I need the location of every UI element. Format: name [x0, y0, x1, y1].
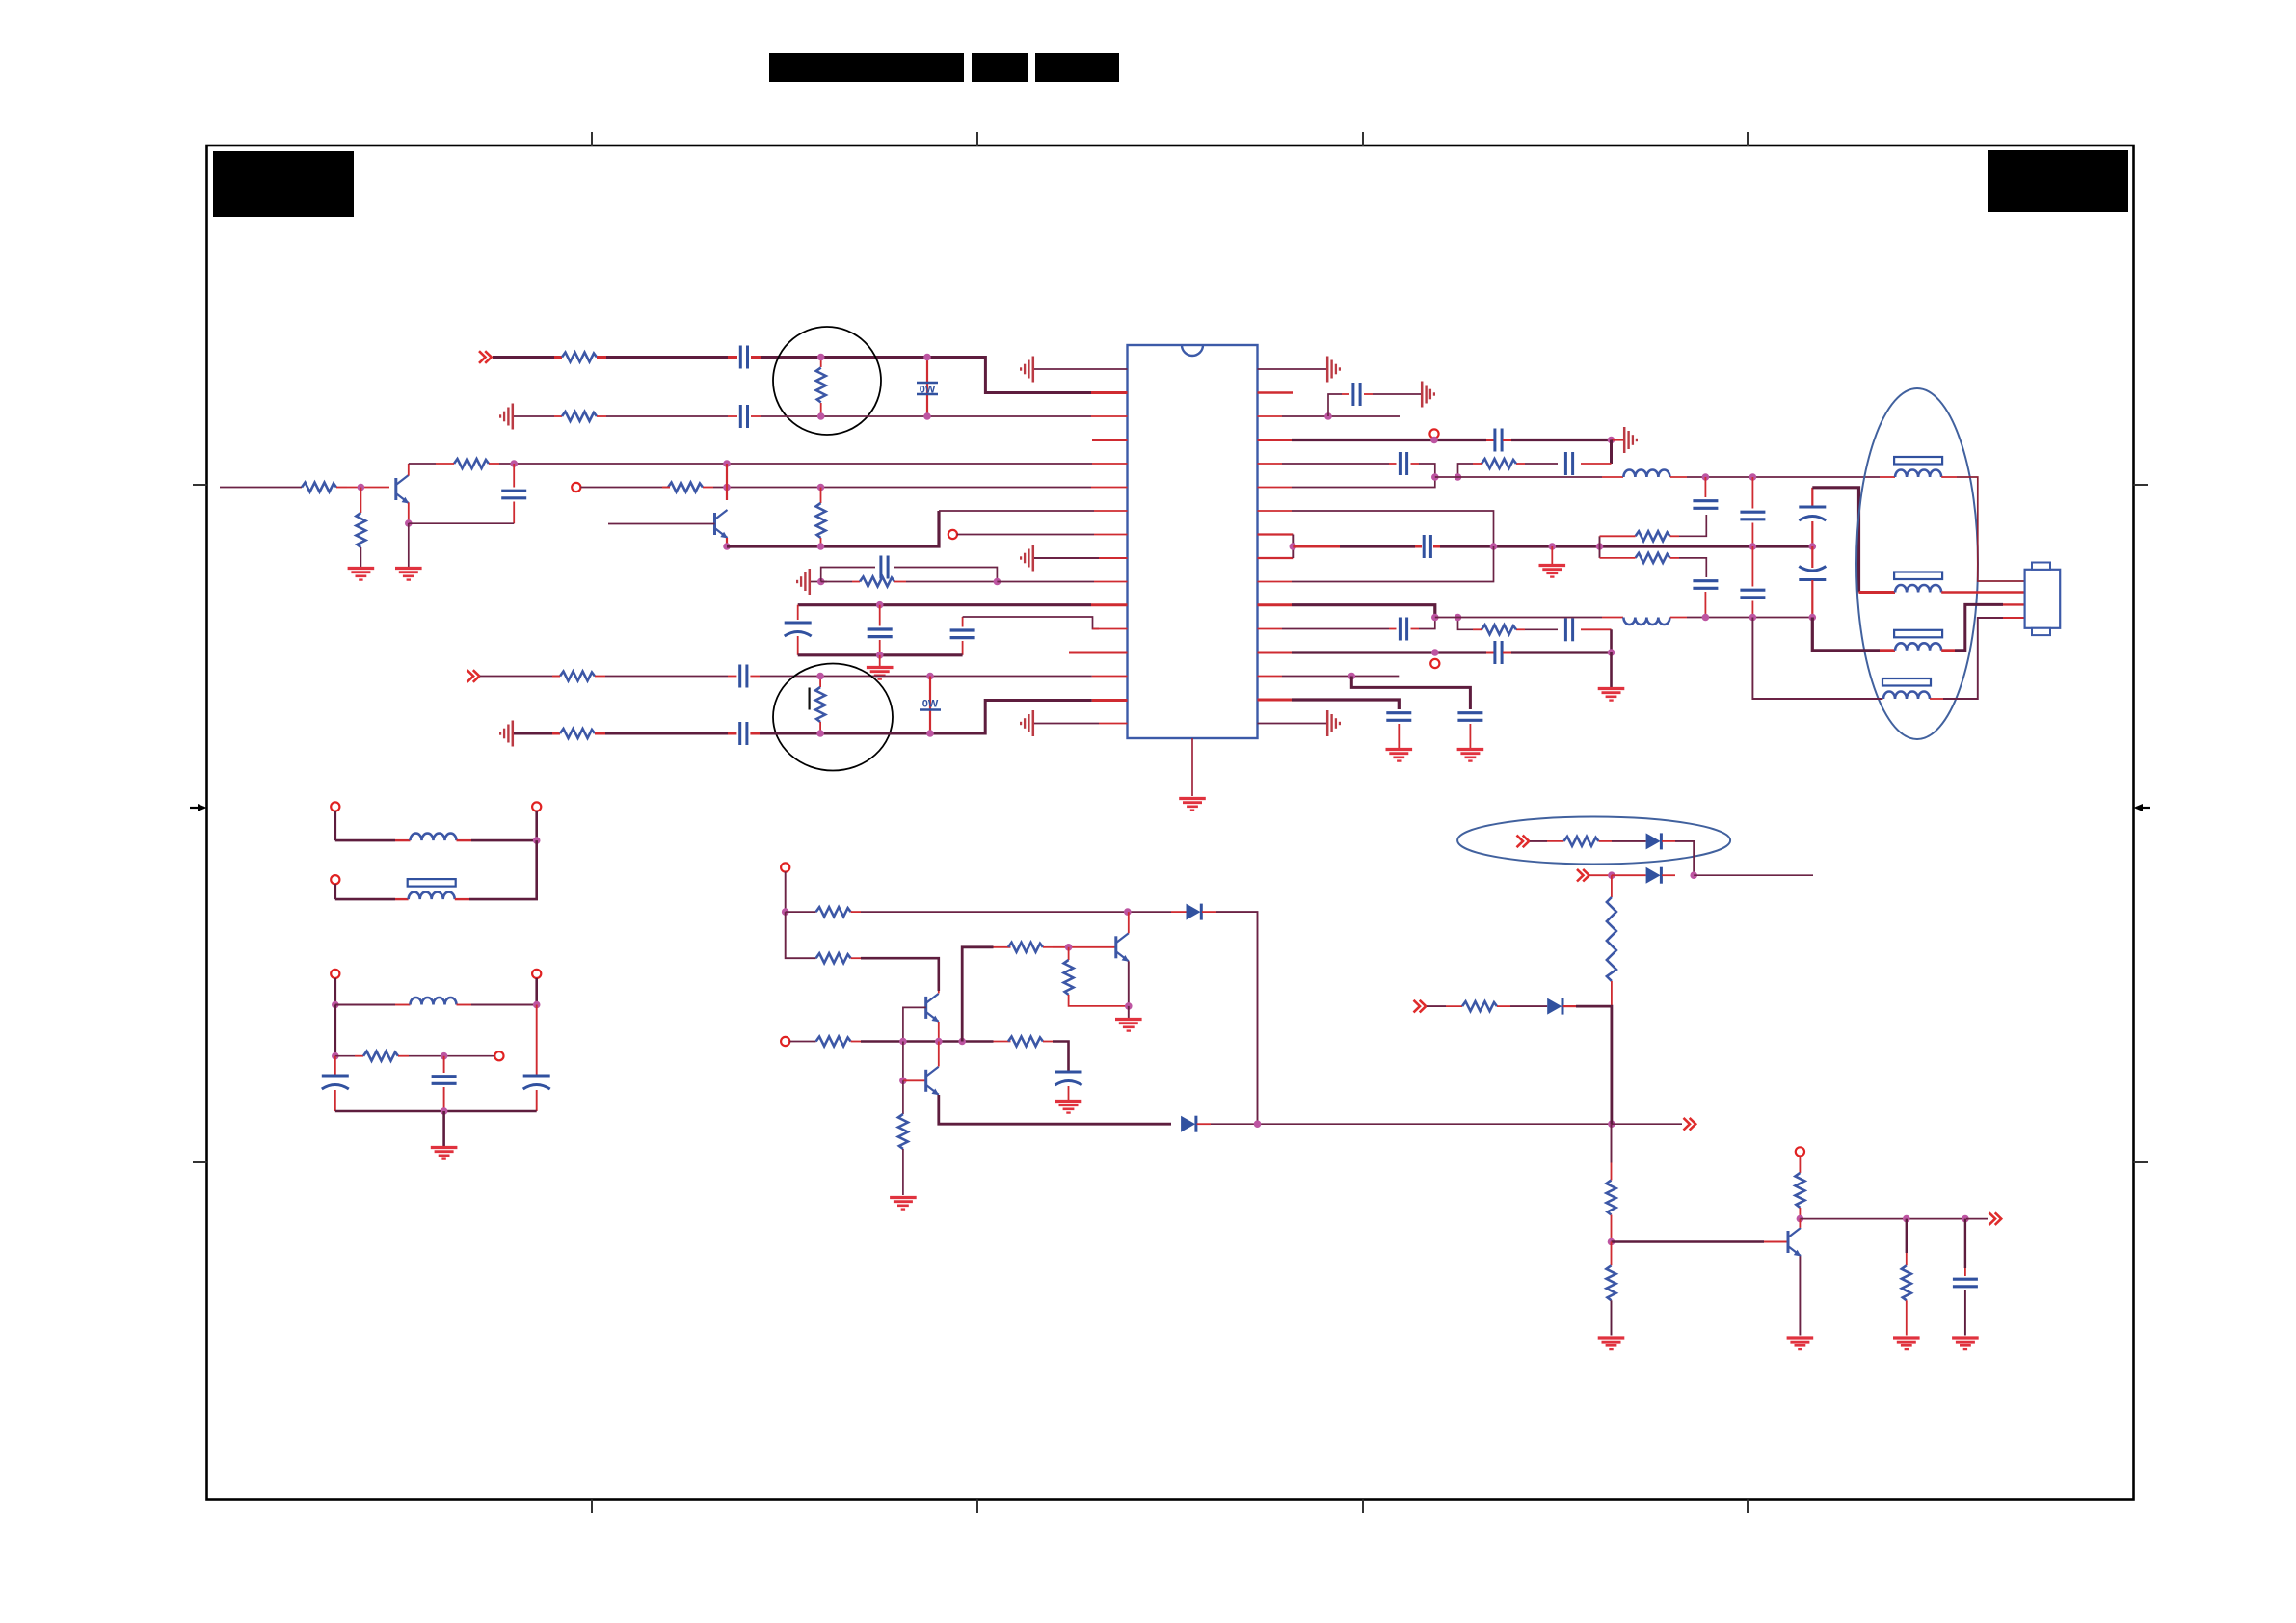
terminal N2 TL: [331, 970, 339, 978]
wire Q5 emitter gnd: [1128, 1006, 1130, 1018]
resistor R19 (row3): [816, 1037, 861, 1047]
wire rail left: [1293, 545, 1415, 548]
wire row F left: [1590, 874, 1612, 876]
border tick bottom 1: [591, 1500, 593, 1514]
node collector row x2038: [1962, 1215, 1969, 1223]
resistor R27 (divider top): [1607, 1124, 1616, 1241]
wire row G left: [1427, 1005, 1446, 1007]
svg-text:0W: 0W: [922, 699, 939, 710]
chassis ground row603: [797, 569, 810, 595]
wire IC pinR4 (thick row 456.5): [1258, 439, 1487, 441]
wire row1 long: [861, 911, 1171, 913]
resistor R22 (Q5 base row): [994, 943, 1054, 952]
pin stub IC pin13 (red): [1069, 652, 1128, 654]
ground rail: [1539, 566, 1566, 577]
ground col1671: [1598, 689, 1625, 701]
diode D1: [1171, 904, 1216, 920]
node rail x1341: [1290, 543, 1297, 550]
node row B / R2: [817, 412, 825, 420]
title redaction bar 3: [1035, 53, 1119, 82]
node rail x1610: [1549, 543, 1557, 550]
wire W1 to connector pin1: [1957, 477, 2025, 581]
pin stub IC pin4 (red): [1092, 439, 1128, 441]
capacitor C6: [868, 605, 893, 655]
winding W3: [1880, 630, 1955, 651]
node row F: [1608, 871, 1615, 879]
chassis ground pin16: [1021, 710, 1033, 736]
wire row 505.5 to IC pin6: [713, 487, 1091, 489]
wire T1 down: [785, 872, 787, 913]
wire base divider link: [902, 1042, 904, 1081]
wire Q6 base: [1612, 1240, 1789, 1243]
wire C3 to emitter: [409, 522, 514, 524]
resistor R24: [1547, 837, 1612, 846]
node row1166 x1304: [1254, 1120, 1262, 1128]
wire IC bottom pin: [1191, 738, 1193, 796]
capacitor C7: [950, 617, 975, 655]
wire row653 corner down: [1610, 629, 1613, 652]
node Q1 base: [358, 484, 365, 492]
border tick bottom 3: [1362, 1500, 1364, 1514]
border tick right 2: [2134, 1161, 2149, 1163]
chassis ground row D: [500, 721, 513, 747]
terminal IC pin8: [948, 530, 957, 539]
node row1 Q5 collector: [1124, 908, 1132, 916]
wire IC pinR9: [1258, 557, 1294, 559]
diode D4: [1646, 867, 1675, 884]
wire IC pinR11 (thick row 628): [1258, 605, 1435, 618]
wire gnd drop: [879, 655, 881, 666]
wire to Q1 base node: [347, 487, 389, 489]
wire pinR4 right: [1511, 439, 1614, 441]
wire IC pinR12: [1258, 628, 1390, 630]
capacitor C19 (col 1880 upper, polarized): [1799, 488, 1826, 546]
ground C25: [1457, 750, 1484, 761]
wire Q5 feed vertical: [962, 947, 993, 1042]
wire row F to D4: [1612, 874, 1646, 876]
capacitor C22 (row 653): [1525, 618, 1612, 641]
wire N2 left column: [334, 1005, 336, 1056]
wire Q3 emitter: [938, 1022, 940, 1042]
wire Q6 collector row: [1800, 1218, 1966, 1220]
svg-text:0W: 0W: [920, 385, 936, 396]
wire row E mid: [1612, 840, 1646, 842]
wire pinR10 drop: [1292, 546, 1494, 582]
resistor R25 (row F to row G): [1607, 875, 1616, 1006]
node Lbot x1512: [1455, 614, 1462, 622]
node collector row x1977: [1903, 1215, 1910, 1223]
wire collector row tail: [1966, 1218, 1988, 1220]
wire row481 corner: [1458, 464, 1474, 477]
wire N2 TL down: [334, 978, 336, 1005]
transistor Q4: [926, 1067, 940, 1096]
wire row D right: [760, 701, 1092, 734]
connector arrow row1166: [1684, 1118, 1696, 1131]
wire row E: [1530, 840, 1547, 842]
transistor Q5: [1116, 933, 1130, 962]
node bus x851: [817, 543, 825, 550]
wire IC pinR13 (thick row 677): [1258, 652, 1487, 654]
capacitor C15 (col 1769 upper): [1693, 477, 1718, 508]
inductor L1: [1602, 470, 1687, 478]
wire row D left: [514, 732, 552, 735]
connector arrow collector row: [1989, 1212, 2002, 1225]
node row481 x533: [510, 460, 518, 467]
node row B x962: [923, 412, 931, 420]
annotation circle 2: [773, 664, 893, 771]
wire fork bracket: [1599, 536, 1601, 558]
resistor R23 (Q5 base to emitter): [1064, 947, 1129, 1006]
diode D3: [1646, 833, 1675, 849]
node bus679 x912: [876, 652, 884, 659]
wire Q6 collector: [1799, 1219, 1801, 1228]
node pinR4 x1671: [1608, 437, 1615, 444]
node N2 mid-left: [332, 1052, 339, 1060]
node row603 x1034: [994, 578, 1001, 586]
resistor 0W link (rows A-B): [917, 358, 938, 417]
inductor L4: [395, 998, 471, 1005]
node Ltop x1818: [1749, 473, 1757, 481]
wire W4 to connector pin4: [1943, 618, 2003, 699]
resistor R29 (collector pull-up): [1795, 1157, 1804, 1219]
wire gnd to node: [811, 581, 827, 583]
ground C30: [1055, 1102, 1082, 1113]
ground N2: [431, 1148, 458, 1159]
wire N1 P1: [334, 811, 336, 841]
node row D x965: [926, 730, 934, 737]
transformer ellipse: [1856, 388, 1978, 739]
wire C23 corner: [1419, 618, 1435, 629]
resistor 0W link (rows C-D): [920, 677, 941, 734]
terminal N2 TR: [532, 970, 541, 978]
node pinR3 branch: [1324, 412, 1332, 420]
wire pin9: [1034, 557, 1099, 559]
wire IC pinR3: [1258, 415, 1401, 417]
IC U1 body: [1128, 345, 1258, 738]
wire row A mid: [606, 356, 728, 359]
pin stub IC pin6: [1091, 487, 1128, 489]
transformer T2 winding: [395, 879, 469, 899]
wire Q3 collector: [938, 991, 940, 994]
wire N1 row1 left: [335, 839, 395, 842]
terminal row 505.5: [572, 483, 580, 492]
wire IC pinR8: [1258, 533, 1294, 535]
wire Q4 base: [903, 1079, 926, 1081]
wire L-top row right: [1687, 476, 1880, 478]
wire row1166 right: [1612, 1123, 1682, 1125]
resistor R10 (vertical, circled): [815, 677, 825, 734]
capacitor C24: [1486, 641, 1511, 664]
wire T1 node down: [786, 912, 816, 958]
wire C13 corner: [1419, 464, 1435, 477]
border tick top 2: [976, 132, 978, 146]
resistor R14 (fork bottom): [1600, 553, 1680, 563]
wire bracket pinR8/R9: [1292, 535, 1294, 559]
wire N2 top row right: [471, 1004, 537, 1006]
wire IC pinR1: [1258, 368, 1327, 370]
node N2 bottom: [441, 1107, 448, 1115]
node N2 mid: [441, 1052, 448, 1060]
border arrow right: [2134, 804, 2151, 811]
border tick top 4: [1747, 132, 1749, 146]
wire Q5 emitter: [1128, 961, 1130, 1006]
pin stub IC pinR2 (red): [1258, 391, 1294, 394]
wire row A right: [761, 358, 1091, 393]
wire N2 gnd drop: [442, 1111, 445, 1146]
capacitor C25: [1457, 713, 1482, 748]
wire N2 top row: [335, 1004, 395, 1006]
wire thick link top: [1812, 488, 1858, 593]
wire row3: [861, 1040, 994, 1043]
node row3 x936: [899, 1038, 907, 1046]
resistor R13 (fork top): [1600, 531, 1680, 541]
border tick top 3: [1362, 132, 1364, 146]
pin stub connector pin4: [2003, 617, 2025, 619]
pin stub IC pin14: [1092, 676, 1128, 678]
node row D x851: [816, 730, 824, 737]
wire thick link bottom (col1880 to W3): [1812, 618, 1880, 651]
wire row G corner: [1576, 1006, 1612, 1124]
capacitor C14 (rail): [1415, 535, 1440, 558]
wire N1 row2 left: [335, 898, 395, 901]
connector arrow row C: [467, 670, 480, 682]
capacitor C28 (middle): [432, 1056, 457, 1111]
wire row2 to Q3 collector: [861, 958, 939, 991]
terminal N1 P2: [532, 802, 541, 811]
transistor Q6: [1788, 1228, 1802, 1257]
connector arrow row A: [479, 351, 492, 363]
ground Q6 emitter: [1787, 1338, 1814, 1349]
terminal T2: [781, 1037, 789, 1046]
wire N2 mid row: [409, 1055, 494, 1057]
chassis ground row B: [500, 404, 513, 430]
wire row D mid: [605, 732, 728, 735]
capacitor C20 (col 1880 lower, polarized): [1799, 546, 1826, 618]
wire col1671 (628-713): [1610, 652, 1613, 687]
resistor R5 (Q1 collector): [436, 459, 499, 468]
wire fork top corner: [1679, 515, 1706, 536]
wire row A left: [493, 356, 562, 359]
resistor R7 (bus to row505): [816, 488, 826, 547]
wire pin16: [1034, 723, 1099, 725]
capacitor C1: [728, 346, 761, 369]
terminal N2 mid-right: [494, 1051, 503, 1060]
border tick right 1: [2134, 484, 2149, 486]
pin stub IC pinR6: [1258, 487, 1293, 489]
chassis ground pin9: [1021, 545, 1033, 572]
node row A x962: [923, 354, 931, 361]
node N2 TR: [533, 1001, 541, 1009]
pin stub IC pin8: [1094, 534, 1128, 536]
resistor R28 (divider bottom): [1607, 1242, 1616, 1336]
border tick left 1: [193, 484, 207, 486]
terminal Q6 collector supply: [1796, 1147, 1804, 1156]
top-left redaction box: [213, 151, 354, 217]
node Lbot x1818: [1749, 614, 1757, 622]
resistor R6: [662, 483, 713, 492]
ground R28: [1598, 1338, 1625, 1349]
capacitor C16 (col 1769 lower): [1693, 581, 1718, 618]
resistor R12 (row 481): [1473, 459, 1525, 468]
transistor Q2: [715, 510, 729, 539]
node row C x965: [926, 673, 934, 680]
node row F right: [1690, 871, 1697, 879]
wire collector row: [409, 463, 436, 465]
wire Q6 emitter: [1799, 1256, 1801, 1335]
node rail x1659: [1596, 543, 1604, 550]
pin stub IC pin5: [1092, 463, 1128, 465]
winding W1: [1880, 457, 1957, 477]
chassis ground C10: [1422, 382, 1434, 408]
capacitor C4 (parallel bypass): [821, 556, 998, 582]
resistor R16 (N2 mid row): [335, 1051, 409, 1061]
inductor L2: [1602, 618, 1687, 625]
wire L-bot row right: [1687, 617, 1812, 619]
node rail x1880: [1809, 543, 1817, 550]
wire IC pinR5: [1258, 463, 1390, 465]
border tick left 2: [193, 1161, 207, 1163]
node Ltop x1769: [1702, 473, 1710, 481]
annotation mark: [808, 688, 810, 710]
ground C31: [1952, 1338, 1979, 1349]
wire Q4 emitter to row 1166: [939, 1095, 1171, 1124]
node Q6 collector: [1797, 1215, 1804, 1223]
resistor R26: [1446, 1001, 1510, 1011]
top-right redaction box: [1988, 150, 2128, 212]
node rail x1549: [1490, 543, 1498, 550]
wire row603 to IC pin10: [997, 581, 1094, 583]
wire W3 to connector pin3: [1955, 604, 2003, 650]
capacitor C10 branch: [1328, 383, 1421, 416]
wire R22 to Q5 base: [1053, 946, 1116, 948]
pin stub IC pin1 + wire: [1034, 368, 1128, 370]
node row481 x754: [723, 460, 731, 467]
ground cluster: [867, 668, 894, 679]
wire row653 step: [1458, 618, 1474, 630]
capacitor C8: [728, 665, 760, 688]
capacitor C11: [1486, 429, 1511, 452]
pin stub IC pinR10: [1258, 581, 1293, 583]
title redaction bar 2: [972, 53, 1028, 82]
wire D3 corner: [1675, 841, 1694, 875]
wire row3 corner: [1053, 1042, 1069, 1073]
node pinR4 x1488: [1430, 437, 1438, 444]
resistor R1: [554, 353, 606, 362]
node row C / R10: [816, 673, 824, 680]
node Ltop x1488: [1431, 473, 1439, 481]
node row3 x973: [935, 1038, 943, 1046]
terminal N1 P3: [331, 875, 339, 884]
capacitor C17 (col 1818 upper): [1740, 477, 1765, 546]
wire Q1 emitter to gnd: [408, 523, 410, 567]
ground Q1 emitter: [395, 569, 422, 580]
wire Q1 emitter: [408, 503, 410, 524]
node Q2 emitter bus: [723, 543, 731, 550]
ground R30: [1893, 1338, 1920, 1349]
capacitor C26: [1386, 713, 1411, 748]
capacitor C9: [728, 722, 760, 745]
capacitor C13: [1389, 452, 1419, 475]
sheet border frame: [207, 146, 2134, 1500]
border tick bottom 2: [976, 1500, 978, 1514]
pin stub IC pin11: [1091, 603, 1128, 606]
annotation circle 1: [773, 327, 881, 435]
capacitor C30 (polarized): [1055, 1072, 1082, 1100]
node Q5 base divider: [1065, 944, 1073, 951]
wire row B mid: [606, 415, 728, 417]
resistor R21 (below Q4 base): [898, 1080, 908, 1195]
terminal ring pinR13: [1430, 659, 1439, 668]
capacitor C18 (col 1818 lower): [1740, 546, 1765, 618]
wire rail mid: [1440, 545, 1812, 547]
connector arrow row F: [1577, 869, 1589, 882]
wire Q2 emitter: [726, 538, 728, 546]
node row505 x754: [723, 484, 731, 492]
node Q1 emitter: [405, 519, 413, 527]
wire row B right: [761, 415, 1091, 417]
wire N1 P3: [334, 884, 336, 899]
wire IC pinR7: [1258, 511, 1494, 546]
wire Q3 base link: [903, 1007, 926, 1041]
pin stub connector pin3: [2003, 603, 2025, 605]
pin stub IC pin15: [1092, 699, 1128, 702]
node row603 x851: [817, 578, 825, 586]
node pinR13 x1671: [1608, 649, 1615, 656]
wire drop 1671: [1610, 440, 1613, 465]
wire L-bot row: [1435, 617, 1602, 619]
resistor R8: [821, 577, 998, 587]
wire Q2 base: [608, 523, 715, 525]
pin stub IC pin2: [1091, 391, 1128, 394]
wire N1 row1 right: [471, 839, 537, 842]
pin stub IC pin3: [1091, 415, 1128, 417]
wire row G mid: [1510, 1005, 1547, 1007]
wire Lbot col1818 to W4: [1752, 618, 1882, 700]
diode D5: [1547, 998, 1576, 1015]
resistor R31 (row B): [554, 412, 606, 421]
wire pinR14 branch: [1351, 677, 1470, 710]
node Ltop x1512: [1455, 473, 1462, 481]
node pinR13 x1488: [1431, 649, 1439, 656]
connector J1: [2025, 563, 2061, 636]
ground R21: [890, 1198, 917, 1210]
ground Q1 base divider: [348, 569, 375, 580]
wire row 505.5: [580, 487, 670, 489]
border arrow left: [190, 804, 207, 811]
capacitor C2: [728, 405, 761, 428]
wire fork bottom corner: [1679, 558, 1706, 577]
wire row1166 mid: [1211, 1123, 1612, 1125]
terminal N1 P1: [331, 802, 339, 811]
node pinR14: [1348, 673, 1356, 680]
capacitor C27 (left, polarized): [322, 1056, 349, 1111]
wire row F tail: [1694, 874, 1813, 876]
resistor R20 (row3 right): [994, 1037, 1054, 1047]
node N2 TL: [332, 1001, 339, 1009]
wire IC pinR15 (thick): [1258, 700, 1400, 709]
wire row C right: [760, 676, 1092, 678]
terminal T1: [781, 863, 789, 871]
winding W4: [1882, 678, 1943, 699]
wire IC pinR6 bracket: [1292, 477, 1435, 488]
wire N2 TR down: [535, 978, 538, 1005]
resistor R18 (row2): [816, 953, 861, 963]
wire bottom bus 679.8: [798, 653, 963, 656]
wire emitter bus: [727, 511, 939, 546]
capacitor C5 (polarized): [785, 605, 812, 655]
wire top bus 627.7: [798, 603, 1091, 606]
wire gnd drop rail: [1551, 546, 1553, 564]
